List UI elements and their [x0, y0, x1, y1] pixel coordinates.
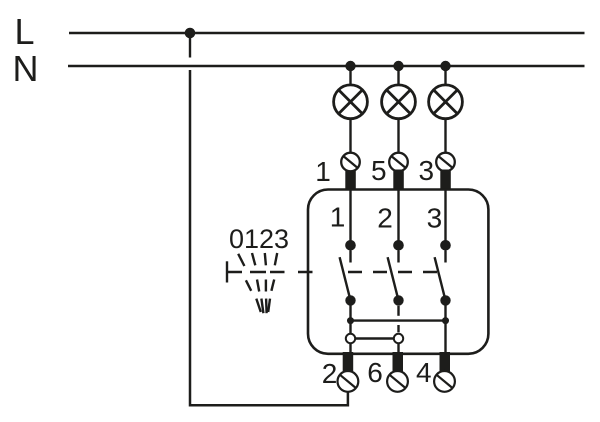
rotary fan line to 2 — [265, 253, 267, 313]
pole 2 fixed contact stub — [397, 251, 399, 263]
wire L feed down left side — [190, 70, 348, 405]
terminal 4 screw — [434, 371, 455, 392]
svg-text:1: 1 — [330, 202, 346, 233]
pole 2 lower contact dot — [393, 295, 403, 305]
rotary actuator handle — [226, 261, 228, 282]
terminal 1 stub into box — [345, 171, 356, 191]
terminal 3 stub into box — [440, 170, 451, 191]
wire pole 2 below bridge — [397, 343, 399, 353]
rotary fan line to 0 — [238, 254, 261, 312]
terminal 6 screw — [387, 371, 408, 392]
terminal 3 screw — [436, 153, 455, 172]
wire lamp E1 to terminal 1 — [349, 119, 351, 154]
wire box top to contact 3 — [444, 190, 446, 246]
terminal 4 stub out of box — [440, 352, 451, 372]
wire N to lamp E2 — [397, 66, 399, 86]
terminal 6 stub out of box — [393, 352, 404, 372]
pole 3 lower contact dot — [440, 295, 450, 305]
pole 2 upper contact dot — [393, 240, 404, 251]
junction dot lamp3 on N — [440, 61, 450, 71]
junction dot pole 1 link — [347, 317, 354, 324]
terminal 2 stub out of box — [343, 352, 354, 372]
svg-text:4: 4 — [416, 357, 432, 388]
svg-text:3: 3 — [427, 203, 443, 234]
junction dot on L line — [185, 28, 196, 39]
switch box outline — [308, 190, 488, 354]
lamp E3 — [429, 85, 463, 119]
rotary fan line to 1 — [252, 253, 263, 313]
pole 2 switch blade — [388, 257, 399, 300]
svg-text:0123: 0123 — [229, 224, 289, 254]
svg-text:L: L — [15, 11, 35, 52]
pole 3 fixed contact stub — [444, 251, 446, 263]
terminal 5 screw — [389, 153, 408, 172]
wire L feed upper segment — [189, 33, 191, 58]
svg-text:1: 1 — [315, 156, 331, 187]
wire lamp E3 to terminal 3 — [444, 119, 446, 154]
pole 1 upper contact dot — [345, 240, 356, 251]
wire bridge line poles 1-2 — [351, 337, 399, 339]
wire box top to contact 1 — [349, 190, 351, 246]
wire N to lamp E1 — [349, 66, 351, 86]
wire junction line poles 1-3 — [351, 319, 446, 321]
pole 3 upper contact dot — [440, 240, 451, 251]
bridge open node pole 2 — [394, 334, 403, 343]
svg-text:2: 2 — [322, 358, 338, 389]
svg-text:2: 2 — [377, 203, 393, 234]
lamp E2 — [382, 85, 416, 119]
svg-text:5: 5 — [371, 155, 387, 186]
terminal 1 screw — [341, 153, 360, 172]
terminal 2 screw — [338, 371, 359, 392]
rotary fan line to 3 — [268, 253, 277, 312]
mechanical linkage dashed line left — [227, 271, 313, 273]
pole 1 fixed contact stub — [349, 251, 351, 263]
bridge open node pole 1 — [346, 334, 355, 343]
pole 1 lower contact dot — [345, 295, 355, 305]
svg-text:6: 6 — [367, 357, 383, 388]
pole 1 switch blade — [340, 257, 351, 300]
wire N to lamp E3 — [444, 66, 446, 86]
wire N line — [68, 65, 585, 68]
junction dot lamp2 on N — [393, 61, 403, 71]
junction dot lamp1 on N — [345, 61, 355, 71]
wire lamp E2 to terminal 5 — [397, 119, 399, 154]
junction dot pole 3 link — [442, 317, 449, 324]
pole 3 switch blade — [435, 257, 446, 300]
terminal 5 stub into box — [393, 170, 404, 191]
svg-text:3: 3 — [419, 155, 435, 186]
wire pole 2 dashed link lower — [397, 325, 399, 332]
wire box top to contact 2 — [397, 190, 399, 246]
wire pole 3 lower contact down — [444, 300, 446, 353]
mechanical linkage dashed line inside box — [348, 271, 437, 273]
wire L line — [69, 32, 585, 35]
lamp E1 — [334, 85, 368, 119]
wire pole 2 dashed link upper — [397, 306, 399, 316]
wire pole 1 lower contact down — [349, 300, 351, 353]
svg-text:N: N — [13, 48, 39, 89]
